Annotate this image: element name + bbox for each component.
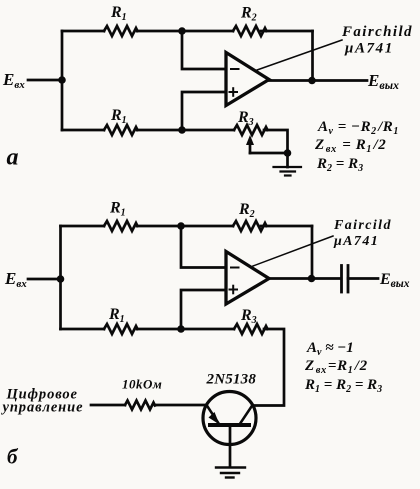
node Evx input wire b [28,278,61,281]
svg-text:10kОм: 10kОм [122,377,162,392]
junction input node a [58,76,66,84]
wire left vertical [61,31,64,130]
wire digital control input [91,404,125,407]
transistor base bar [210,423,249,427]
svg-text:Zвх=R1/2: Zвх=R1/2 [304,358,368,376]
wire to inverting input b [181,226,226,268]
svg-text:R2: R2 [240,5,257,24]
transistor collector diagonal [241,407,252,424]
svg-text:а: а [7,145,19,171]
svg-text:R1 = R2 = R3: R1 = R2 = R3 [304,377,382,395]
capacitor C1 [342,266,349,293]
ground b [216,468,245,478]
resistor 10kOm [125,401,155,410]
wire R3 to transistor collector [253,329,284,406]
svg-text:R3: R3 [237,109,254,128]
svg-text:Eвх: Eвх [4,269,27,290]
wire output b [269,277,340,280]
wire between R1 and R2 [137,30,233,33]
wire to non-inverting input b [181,290,226,329]
svg-text:2N5138: 2N5138 [206,372,257,388]
wire to inverting input [182,31,226,69]
transistor emitter diagonal with arrow [208,407,219,423]
wire bottom rail left [62,129,104,132]
svg-text:управление: управление [1,400,84,416]
wiper arrow of R3 [249,141,252,153]
svg-text:б: б [7,445,19,469]
wire top rail left [62,30,104,33]
wire bottom rail left b [61,328,105,331]
resistor R3 trimmer [234,125,268,135]
wire between R1 and R2 b [137,225,233,228]
wire top rail right [261,30,313,33]
svg-text:Eвых: Eвых [367,71,399,92]
wire R3 to corner [264,130,288,167]
wire output a [269,79,367,82]
wire bottom rail mid b [137,328,234,331]
wire after capacitor [348,277,378,280]
transistor Q1 2N5138 [203,392,256,445]
junction output node b [308,275,316,283]
junction bottom rail node b [177,325,185,333]
resistor R1 top b [104,221,138,231]
junction output node a [308,77,316,85]
svg-text:R3: R3 [240,307,257,326]
svg-text:Faircild: Faircild [333,218,392,233]
op-amp U2 [226,252,269,305]
svg-text:μA741: μA741 [333,234,379,249]
wire left vertical b [59,226,62,329]
svg-text:R1: R1 [110,4,127,23]
wire feedback vertical b [311,226,314,279]
svg-text:R1: R1 [110,107,127,126]
wire top rail right b [261,225,312,228]
op-amp U1 [226,53,269,106]
wire to non-inverting input [182,92,226,130]
junction input node b [57,275,65,283]
ground a [274,167,302,176]
wire 10kOm to base [155,404,207,407]
svg-text:R2: R2 [238,201,255,220]
wire bottom rail mid [137,129,234,132]
svg-text:R1: R1 [109,200,126,219]
svg-text:Zвх = R1/2: Zвх = R1/2 [314,137,386,155]
svg-text:R1: R1 [108,306,125,325]
node Evx input wire [28,79,62,82]
wire top rail left b [61,225,105,228]
svg-text:Eвх: Eвх [2,70,25,91]
resistor R1 bottom b [104,324,138,334]
svg-text:Av = −R2/R1: Av = −R2/R1 [317,119,399,137]
resistor R2 [233,26,267,36]
svg-text:μA741: μA741 [344,41,394,57]
junction wiper node [284,149,292,157]
callout line to Fairchild label [257,40,342,70]
junction bottom rail node [178,126,186,134]
wire feedback vertical [311,31,314,81]
junction summing node top [178,27,186,35]
junction summing node b [177,222,185,230]
svg-text:Eвых: Eвых [379,271,410,290]
resistor R2 b [233,221,267,231]
resistor R1 bottom [104,125,138,135]
resistor R1 top [104,26,138,36]
svg-text:Fairchild: Fairchild [341,24,413,40]
wire wiper to ground node [250,152,288,155]
callout line to Faircild label b [253,236,333,266]
transistor base lead down [229,427,232,467]
resistor R3 b [234,324,268,334]
svg-text:R2 = R3: R2 = R3 [316,156,363,174]
svg-text:Av ≈ −1: Av ≈ −1 [306,340,354,358]
